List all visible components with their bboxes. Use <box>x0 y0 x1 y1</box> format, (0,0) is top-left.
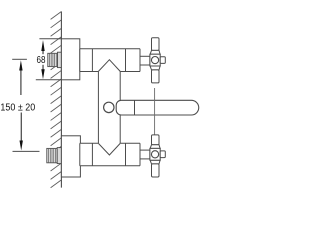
svg-text:150 ± 20: 150 ± 20 <box>0 102 35 113</box>
svg-text:68: 68 <box>37 55 46 66</box>
